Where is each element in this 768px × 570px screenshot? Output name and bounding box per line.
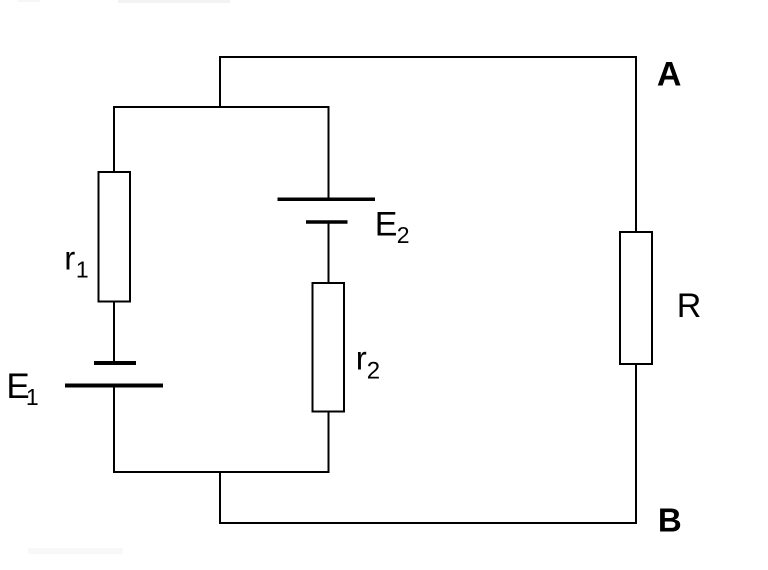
svg-text:A: A	[657, 55, 682, 93]
svg-text:r: r	[64, 240, 75, 277]
svg-text:2: 2	[397, 222, 410, 248]
svg-text:B: B	[658, 502, 682, 539]
svg-text:2: 2	[367, 358, 380, 385]
svg-text:1: 1	[26, 384, 39, 410]
svg-text:1: 1	[76, 256, 89, 282]
svg-text:R: R	[677, 287, 702, 325]
svg-text:r: r	[356, 340, 367, 377]
svg-text:E: E	[375, 206, 398, 244]
